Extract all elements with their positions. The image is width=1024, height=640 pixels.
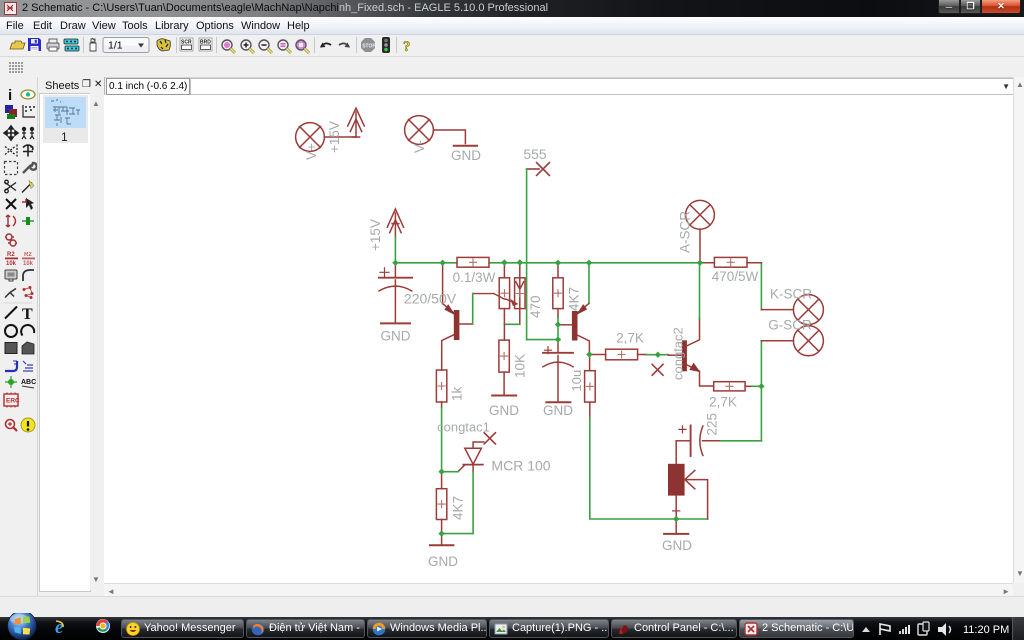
transistor Q1 PNP: [442, 263, 473, 370]
resistor 2,7K first: [589, 349, 646, 360]
wire G net vertical: [760, 341, 762, 441]
pin G-SCR: [761, 340, 793, 342]
wire 2,7K to G net: [752, 385, 761, 387]
wire 555 net to node: [527, 339, 558, 341]
pin n/c X at base node: [652, 364, 663, 375]
resistor 1k: [436, 370, 446, 408]
svg-text:e: e: [55, 617, 64, 638]
lamp K-SCR: [793, 295, 823, 325]
wire +15V to rail: [394, 237, 396, 263]
ground GND (V-): [454, 145, 477, 147]
ground GND (4K7): [430, 534, 453, 546]
ground GND (10K): [492, 395, 516, 397]
resistor 2,7K second: [714, 382, 752, 391]
svg-text:R2: R2: [7, 252, 15, 258]
wire gate congtac1: [442, 471, 458, 473]
lamp G-SCR: [793, 326, 823, 356]
svg-text:10k: 10k: [6, 261, 17, 267]
supply +15V rail: [387, 209, 403, 237]
wire cathode congtac1: [442, 472, 474, 534]
resistor 4K7 rail: [553, 263, 563, 318]
wire cap to G net: [721, 440, 762, 442]
svg-text:ABC: ABC: [21, 379, 36, 386]
pin 555 n/c: [527, 163, 550, 176]
wiper wire Q1 base to pot: [473, 294, 517, 306]
wire main rail: [395, 262, 700, 264]
resistor 4K7 bottom: [436, 472, 446, 534]
trimmer potentiometer: [515, 263, 525, 325]
SCR congtac1 MCR 100: [458, 433, 495, 472]
lamp V+: [296, 123, 356, 152]
wire congtac2 collector up: [699, 263, 701, 319]
wire 555 net down: [526, 169, 528, 340]
wire Q1 base up: [472, 294, 474, 324]
wire K net: [760, 263, 762, 310]
transistor Q2 PNP: [558, 263, 589, 355]
thyristor body (filled): [668, 441, 708, 534]
ground GND (1u): [546, 401, 570, 403]
wire base node Q2: [557, 318, 559, 340]
lamp A-SCR: [686, 200, 715, 262]
resistor 470/5W: [700, 257, 761, 267]
resistor 1K mid: [585, 355, 596, 418]
svg-text:R2: R2: [24, 252, 32, 258]
ground GND (thyristor): [664, 533, 688, 535]
svg-text:STOP: STOP: [362, 43, 376, 49]
svg-text:10k: 10k: [23, 261, 34, 267]
svg-text:BRD: BRD: [200, 40, 211, 46]
schematic text labels: [304, 121, 812, 569]
wire 1k to gate node: [441, 408, 443, 472]
wire pot jog: [504, 323, 519, 325]
resistor 10K: [499, 340, 509, 395]
wire 1K to thyristor gate: [590, 418, 708, 520]
svg-text:?: ?: [403, 39, 411, 55]
svg-text:T: T: [22, 306, 33, 323]
ground GND (220/50V): [381, 322, 410, 324]
transistor congtac2 NPN: [668, 319, 713, 387]
capacitor 1u: [543, 340, 573, 402]
junction dots: [392, 259, 764, 537]
svg-text:1/1: 1/1: [108, 40, 123, 52]
pin K-SCR: [761, 309, 793, 311]
capacitor 225: [676, 426, 720, 457]
supply +15V top: [348, 108, 365, 137]
svg-text:SCR: SCR: [181, 40, 192, 46]
wire divider to 10K: [503, 324, 505, 340]
resistor 0.1/3W: [457, 257, 489, 267]
svg-text:ERC: ERC: [6, 398, 20, 405]
capacitor 220/50V: [379, 263, 412, 323]
wire 2,7K to congtac2 base: [646, 354, 668, 356]
svg-text:i: i: [8, 87, 12, 104]
lamp V-: [405, 116, 466, 145]
resistor 470 (divider): [499, 263, 509, 325]
